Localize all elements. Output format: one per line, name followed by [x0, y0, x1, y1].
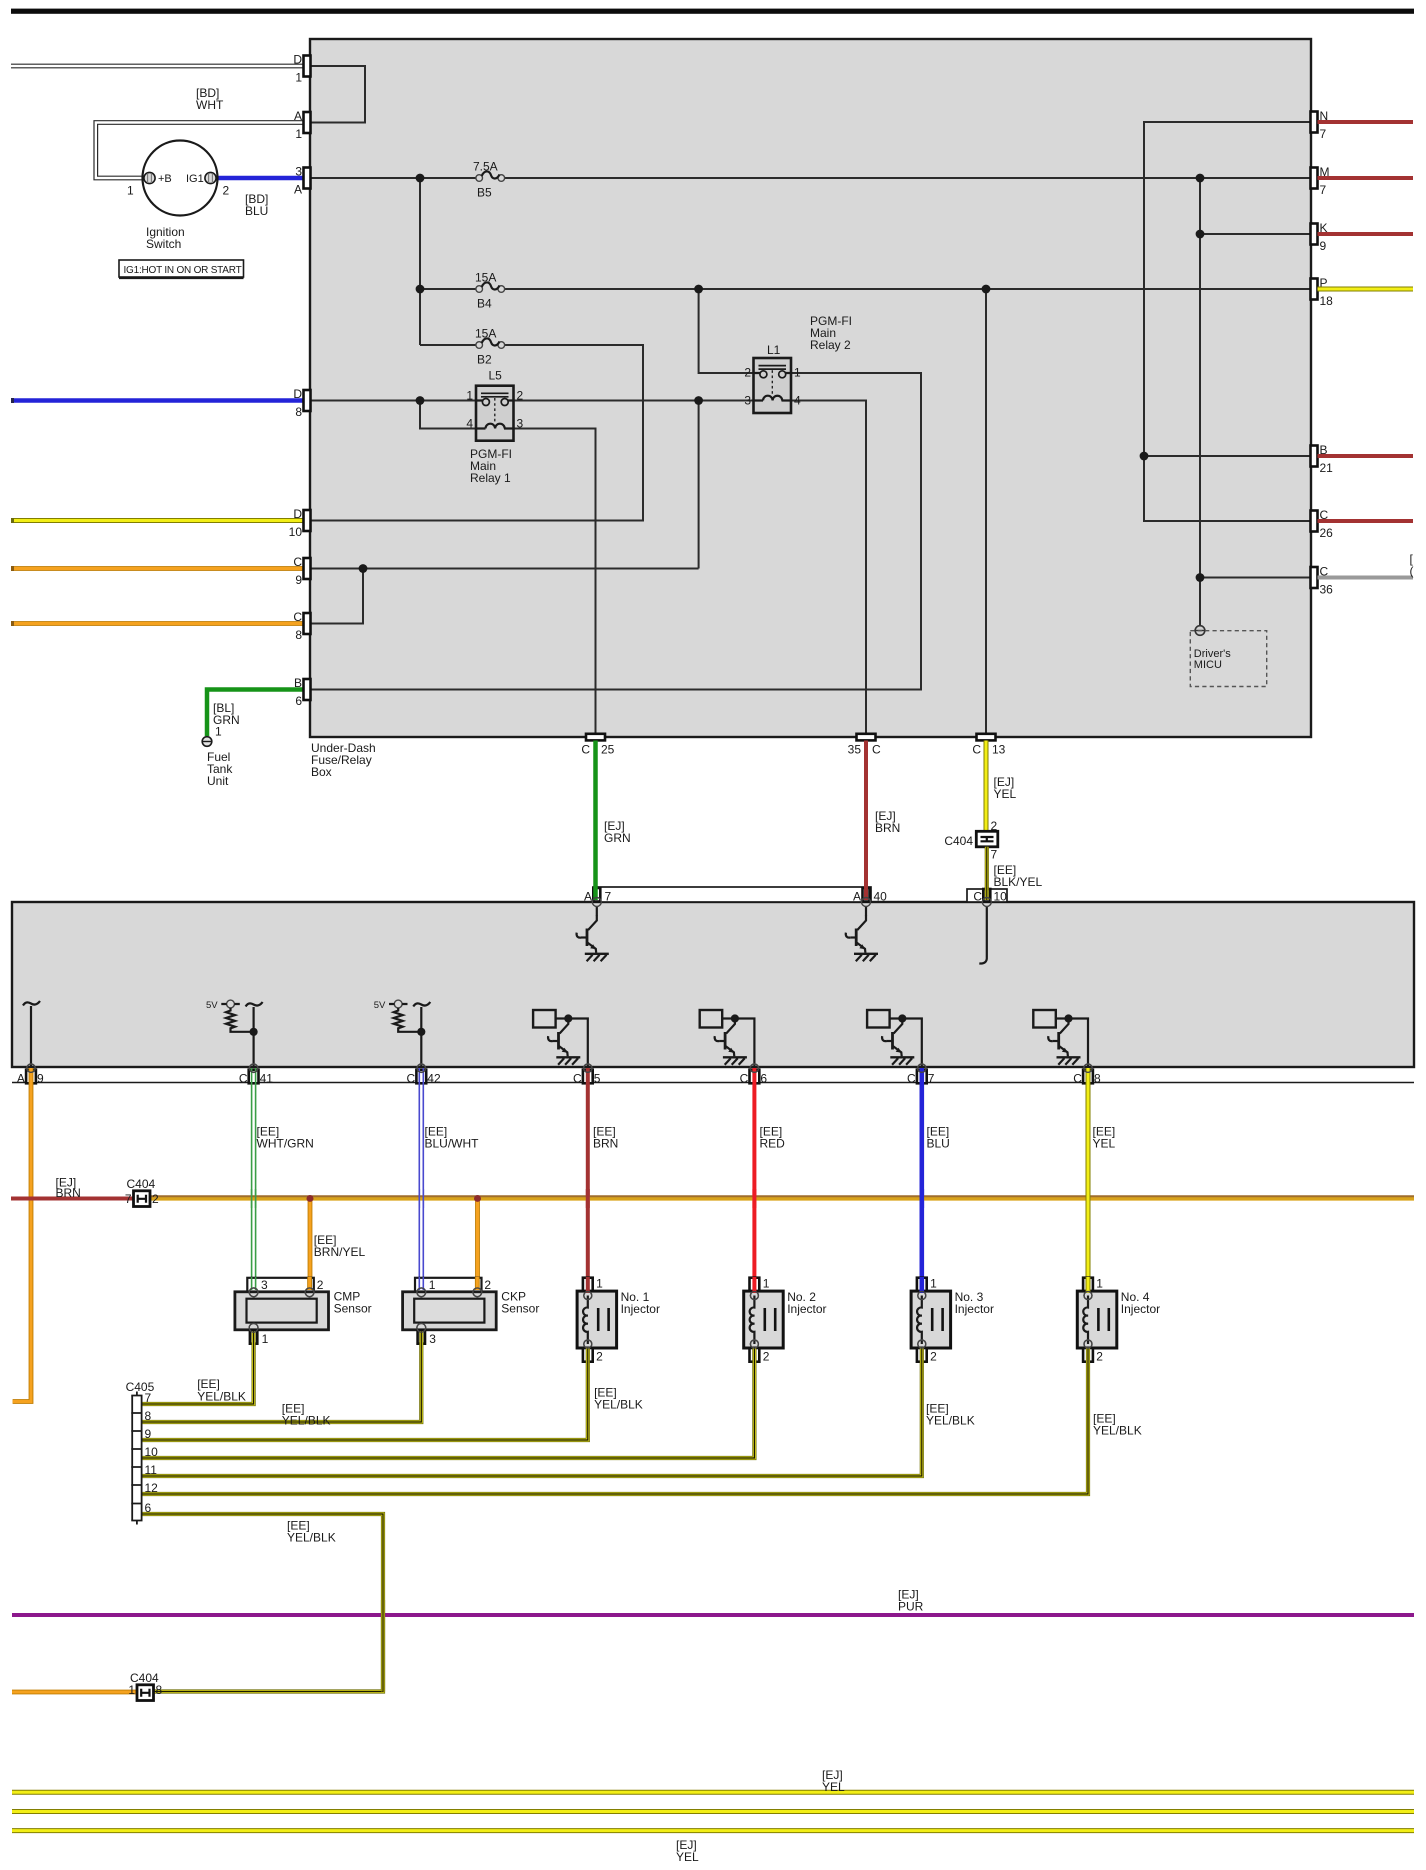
svg-text:36: 36: [1320, 583, 1334, 597]
svg-text:8: 8: [156, 1683, 163, 1697]
wire [EJ] YEL bottom 1: [12, 1790, 1414, 1795]
band edge connector C41: [249, 1070, 259, 1084]
lower gray band (ECM/PCM): [12, 902, 1414, 1067]
svg-text:42: 42: [427, 1071, 441, 1085]
svg-text:10: 10: [289, 525, 303, 539]
wire battery bus vertical x=420: [419, 178, 421, 345]
svg-text:7: 7: [991, 848, 998, 862]
wire [EJ] BRN horizontal row: [11, 1197, 134, 1201]
wire ORN horizontal row to right edge: [150, 1195, 1414, 1200]
injector driver for C6: [700, 1010, 755, 1066]
svg-text:C404: C404: [127, 1177, 156, 1191]
wire [EE] BRN/YEL to CMP pin2: [308, 1199, 313, 1289]
wire [EE] WHT/GRN C41 to CMP pin3: [252, 1068, 256, 1288]
wire BLU/WHT through CKP pin1 strip: [419, 1277, 423, 1290]
fuel tank unit terminal: [202, 737, 212, 747]
wire B2 output to D10: [310, 345, 643, 521]
svg-text:YEL/BLK: YEL/BLK: [282, 1414, 331, 1428]
svg-text:Switch: Switch: [146, 237, 181, 251]
node dot on orange row at CKP branch: [474, 1195, 481, 1202]
svg-text:2: 2: [763, 1350, 770, 1364]
svg-text:1: 1: [763, 1277, 770, 1291]
svg-text:B: B: [294, 676, 302, 690]
band edge connector C7: [917, 1070, 927, 1084]
svg-text:2: 2: [484, 1278, 491, 1292]
wire [EJ] PUR horizontal: [12, 1613, 1414, 1617]
wire B5 fuse output to M7: [505, 177, 1312, 179]
svg-text:C: C: [407, 1071, 416, 1085]
pin 35C: [857, 734, 876, 741]
svg-text:C: C: [239, 1071, 248, 1085]
svg-text:Injector: Injector: [1121, 1302, 1160, 1316]
svg-text:4: 4: [794, 394, 801, 408]
svg-text:B4: B4: [477, 297, 492, 311]
svg-text:15A: 15A: [475, 271, 496, 285]
svg-text:2: 2: [517, 389, 524, 403]
svg-text:6: 6: [295, 694, 302, 708]
wire D8 row into relay L5 pin1: [310, 400, 476, 402]
svg-text:15A: 15A: [475, 327, 496, 341]
svg-text:7: 7: [125, 1192, 132, 1206]
svg-text:2: 2: [317, 1278, 324, 1292]
pin C8: [304, 613, 311, 634]
svg-text:D: D: [293, 387, 302, 401]
wire [EJ] YEL bottom 3: [12, 1828, 1414, 1833]
svg-text:(: (: [1410, 564, 1414, 578]
svg-text:GRN: GRN: [604, 831, 631, 845]
svg-text:26: 26: [1320, 526, 1334, 540]
5V pull-up for C42: [374, 1000, 431, 1066]
svg-text:C: C: [973, 890, 982, 904]
pin C36: [1311, 567, 1318, 588]
transistor ground A7: [596, 907, 598, 916]
svg-text:3: 3: [429, 1332, 436, 1346]
svg-text:10: 10: [145, 1445, 159, 1459]
wire B4 output row to P18: [505, 288, 1312, 290]
svg-text:3: 3: [517, 417, 524, 431]
svg-text:YEL/BLK: YEL/BLK: [926, 1414, 975, 1428]
svg-text:9: 9: [295, 573, 302, 587]
svg-text:1: 1: [930, 1277, 937, 1291]
svg-text:Relay 2: Relay 2: [810, 338, 851, 352]
wire [BD] WHT A1 loop to ignition +B: [94, 121, 304, 180]
wire N7 to C26 vertical: [1144, 122, 1311, 521]
redraw YEL/BLK crossing over purple: [381, 1600, 385, 1692]
svg-text:40: 40: [874, 890, 888, 904]
svg-text:A: A: [17, 1071, 25, 1085]
top border bar: [11, 9, 1414, 14]
svg-text:1: 1: [127, 184, 134, 198]
wire C9 branch up to D8 row: [698, 401, 700, 569]
svg-text:Relay 1: Relay 1: [470, 471, 511, 485]
svg-text:7: 7: [1320, 127, 1327, 141]
svg-text:L1: L1: [767, 343, 781, 357]
svg-text:YEL: YEL: [676, 1850, 699, 1864]
svg-text:C: C: [740, 1071, 749, 1085]
wire crossings over orange row (verticals on top): [252, 1189, 1088, 1208]
transistor ground A40: [865, 907, 867, 916]
wire C9 row: [310, 568, 699, 570]
svg-text:D: D: [293, 53, 302, 67]
svg-text:8: 8: [295, 405, 302, 419]
wire M7 branch vertical to MICU ground: [1199, 178, 1201, 626]
svg-text:13: 13: [992, 743, 1006, 757]
wire [EE] BLU/WHT C42 to CKP pin1: [419, 1068, 423, 1288]
wire C36 row: [1200, 577, 1311, 579]
wire BRN/YEL through CKP pin2 strip: [475, 1277, 480, 1290]
pin A3: [304, 168, 311, 189]
wire [EE] BLK/YEL C404 to C10: [985, 847, 989, 889]
svg-text:D: D: [293, 507, 302, 521]
connector C405 comb: [126, 1380, 159, 1525]
wire YEL through injector4 pin1: [1086, 1277, 1091, 1293]
band edge circles over wires: [27, 1064, 1092, 1072]
pin N7: [1311, 112, 1318, 133]
wire L1 pin1 to B6 row: [310, 373, 921, 690]
connector C404 (horizontal H symbol): [125, 1177, 159, 1207]
svg-text:YEL: YEL: [994, 787, 1017, 801]
svg-text:YEL/BLK: YEL/BLK: [197, 1390, 246, 1404]
pin A7: [593, 888, 600, 902]
wire [EE] YEL/BLK injector1 to C405 pin9: [142, 1347, 588, 1440]
svg-text:1: 1: [215, 725, 222, 739]
band edge connector C6: [750, 1070, 760, 1084]
svg-text:Sensor: Sensor: [334, 1302, 372, 1316]
wire B21 maroon: [1318, 454, 1414, 458]
injector driver for C5: [533, 1010, 588, 1066]
svg-text:2: 2: [744, 366, 751, 380]
svg-text:IG1:HOT IN ON OR START: IG1:HOT IN ON OR START: [124, 265, 242, 276]
svg-text:C: C: [581, 743, 590, 757]
wire [EE] YEL C8 to injector4: [1086, 1068, 1091, 1280]
svg-text:18: 18: [1320, 294, 1334, 308]
svg-text:2: 2: [930, 1350, 937, 1364]
svg-text:8: 8: [145, 1409, 152, 1423]
band edge connector C5: [583, 1070, 593, 1084]
svg-text:Box: Box: [311, 765, 332, 779]
wire [EJ] BLU to D8: [12, 398, 304, 403]
wire WHT/GRN through CMP pin3 strip: [252, 1277, 256, 1290]
svg-text:1: 1: [1096, 1277, 1103, 1291]
svg-text:1: 1: [429, 1278, 436, 1292]
fuse B5 7.5A: [473, 160, 505, 200]
connector C404 (vertical): [944, 819, 997, 862]
svg-text:A: A: [853, 890, 861, 904]
svg-text:WHT/GRN: WHT/GRN: [257, 1137, 314, 1151]
injector driver for C8: [1033, 1010, 1088, 1066]
svg-text:PUR: PUR: [898, 1600, 924, 1614]
wire [BD] BLU ignition IG1 to A3: [216, 176, 304, 181]
wire [EE] YEL/BLK injector3 to C405 pin11: [142, 1347, 922, 1476]
svg-text:7: 7: [145, 1391, 152, 1405]
pin D1: [304, 56, 311, 77]
svg-text:9: 9: [37, 1071, 44, 1085]
MICU ground circle: [1195, 626, 1205, 636]
svg-text:BRN: BRN: [593, 1137, 618, 1151]
svg-text:IG1: IG1: [186, 173, 204, 185]
wire [BD] WHT to D1: [11, 64, 304, 68]
svg-text:1: 1: [295, 71, 302, 85]
wire [EE] YEL/BLK CKP pin3 to C405 pin8: [142, 1331, 421, 1422]
svg-text:Injector: Injector: [955, 1302, 994, 1316]
wire BRN through injector1 pin1: [586, 1277, 590, 1293]
svg-text:5: 5: [594, 1071, 601, 1085]
pin B6: [304, 679, 311, 700]
svg-text:1: 1: [128, 1683, 135, 1697]
ignition switch: [127, 141, 230, 252]
fuse B4 15A: [475, 271, 505, 311]
sensor pin circles over wires: [249, 1288, 1092, 1348]
svg-text:2: 2: [152, 1192, 159, 1206]
svg-text:6: 6: [145, 1501, 152, 1515]
svg-text:L5: L5: [489, 369, 503, 383]
wire C10 stub with hook: [979, 907, 987, 964]
svg-text:5V: 5V: [374, 1000, 386, 1011]
fuse B2 15A: [475, 327, 505, 367]
wire [EE] BRN/YEL to CKP pin2: [475, 1199, 480, 1289]
svg-text:Injector: Injector: [787, 1302, 826, 1316]
wire B4 branch down to L1 contact pin2: [699, 289, 754, 373]
pin C25: [586, 734, 605, 741]
svg-text:7: 7: [1320, 183, 1327, 197]
svg-text:C: C: [293, 555, 302, 569]
svg-text:B2: B2: [477, 353, 492, 367]
wire [EJ] YEL to D10: [12, 518, 304, 523]
pin M7: [1311, 168, 1318, 189]
svg-text:41: 41: [260, 1071, 274, 1085]
band edge connector C8: [1083, 1070, 1093, 1084]
svg-text:BLU: BLU: [245, 204, 268, 218]
svg-text:BRN/YEL: BRN/YEL: [314, 1245, 366, 1259]
wire [EE] YEL/BLK C405 pin6 to C404: [142, 1514, 383, 1692]
svg-text:Unit: Unit: [207, 774, 229, 788]
wire C26 maroon: [1318, 519, 1414, 523]
svg-text:BLK/YEL: BLK/YEL: [994, 875, 1043, 889]
svg-text:BLU: BLU: [927, 1137, 950, 1151]
node dot on orange row at CMP branch: [307, 1195, 314, 1202]
wire A9 stub with hook: [30, 1006, 32, 1066]
pin C10: [983, 889, 990, 902]
wire ORN to C9: [12, 566, 304, 571]
svg-text:BRN: BRN: [56, 1186, 81, 1200]
svg-text:C: C: [972, 743, 981, 757]
svg-text:6: 6: [760, 1071, 767, 1085]
wire C36 gray: [1318, 576, 1414, 580]
svg-text:11: 11: [145, 1463, 158, 1477]
wire M7 maroon: [1318, 176, 1414, 180]
wire P18 yellow: [1318, 287, 1414, 292]
svg-text:C: C: [872, 743, 881, 757]
svg-text:7.5A: 7.5A: [473, 160, 498, 174]
pin P18: [1311, 279, 1318, 300]
svg-text:Injector: Injector: [621, 1302, 660, 1316]
svg-text:YEL: YEL: [1093, 1137, 1116, 1151]
pin C13: [977, 734, 996, 741]
pin C26: [1311, 511, 1318, 532]
wire B4 branch down to C13: [985, 289, 987, 734]
svg-text:9: 9: [1320, 239, 1327, 253]
svg-text:MICU: MICU: [1194, 659, 1222, 671]
svg-text:2: 2: [1096, 1350, 1103, 1364]
pin D10: [304, 510, 311, 531]
svg-text:7: 7: [928, 1071, 935, 1085]
band edge connector C42: [416, 1070, 426, 1084]
wire B2 feed: [420, 344, 476, 346]
svg-text:C404: C404: [944, 834, 973, 848]
svg-text:RED: RED: [760, 1137, 786, 1151]
svg-text:A: A: [584, 890, 592, 904]
svg-text:BLU/WHT: BLU/WHT: [425, 1137, 480, 1151]
Driver's MICU dashed box: [1190, 631, 1266, 687]
svg-text:3: 3: [261, 1278, 268, 1292]
wire end caps: [11, 398, 14, 403]
ECM connector strip C10: [967, 889, 1007, 902]
svg-text:21: 21: [1320, 461, 1334, 475]
wire [EJ] YEL C13 to C404: [984, 741, 989, 833]
wire [EE] YEL/BLK injector4 to C405 pin12: [142, 1347, 1088, 1494]
svg-text:1: 1: [466, 389, 473, 403]
IG1 note box: [119, 260, 244, 277]
svg-text:WHT: WHT: [196, 98, 224, 112]
wire [EJ] GRN C25 to A7: [593, 741, 598, 889]
wire B4 row feed: [420, 288, 476, 290]
pin A40: [863, 888, 870, 902]
svg-text:Sensor: Sensor: [501, 1302, 539, 1316]
wire [EJ] YEL bottom 2: [12, 1809, 1414, 1814]
injector driver for C7: [867, 1010, 922, 1066]
svg-text:1: 1: [794, 366, 801, 380]
wire [EE] RED C6 to injector2: [752, 1068, 756, 1280]
wire RED through injector2 pin1: [752, 1277, 756, 1293]
wire D1-A1 loop: [310, 66, 365, 123]
wire ORN to C8: [12, 621, 304, 626]
svg-text:12: 12: [145, 1481, 159, 1495]
svg-text:3: 3: [744, 394, 751, 408]
svg-text:35: 35: [848, 743, 862, 757]
node junction dots: [416, 174, 425, 183]
wire BRN/YEL through CMP pin2 strip: [307, 1277, 312, 1290]
svg-text:2: 2: [596, 1350, 603, 1364]
wire [EE] BRN C5 to injector1: [586, 1068, 590, 1280]
svg-text:YEL: YEL: [822, 1780, 845, 1794]
svg-text:1: 1: [262, 1332, 269, 1346]
left edge connector pins on fuse box: [289, 53, 311, 709]
svg-text:C: C: [573, 1071, 582, 1085]
wire [BL] GRN fuel tank unit to B6: [207, 690, 304, 737]
svg-text:+B: +B: [158, 173, 172, 185]
wire ORN A9 down-left stub: [13, 1068, 31, 1402]
relay L5 PGM-FI Main Relay 1: [466, 369, 523, 486]
wires through A7/A40/C10 strip: [593, 886, 598, 900]
svg-text:A: A: [294, 109, 302, 123]
svg-text:8: 8: [1094, 1071, 1101, 1085]
wire N7 maroon: [1318, 120, 1414, 124]
svg-text:YEL/BLK: YEL/BLK: [1093, 1424, 1142, 1438]
svg-text:1: 1: [295, 127, 302, 141]
svg-text:9: 9: [145, 1427, 152, 1441]
connector C404 (horizontal H symbol, bottom): [128, 1671, 162, 1701]
svg-text:4: 4: [466, 417, 473, 431]
svg-text:C: C: [1073, 1071, 1082, 1085]
5V pull-up for C41: [206, 1000, 263, 1066]
svg-text:2: 2: [223, 184, 230, 198]
svg-text:B5: B5: [477, 186, 492, 200]
ECM connector strip A7-A40: [593, 887, 871, 902]
wire L5 pin3 to C25: [514, 429, 596, 735]
pin B21: [1311, 446, 1318, 467]
pin D8: [304, 390, 311, 411]
wire L1 pin4 to 35C: [792, 401, 867, 735]
svg-text:5V: 5V: [206, 1000, 218, 1011]
wire K9 maroon: [1318, 232, 1414, 236]
connector strip line under lower band: [12, 1082, 1414, 1084]
wire [EE] BLU C7 to injector3: [919, 1068, 924, 1280]
wire B21 row: [1144, 455, 1311, 457]
Under-Dash Fuse/Relay Box (gray): [310, 39, 1311, 737]
pin K9: [1311, 224, 1318, 245]
wire IG1 row y=178 to fuse B5 and M7: [310, 177, 476, 179]
wire [EJ] BRN 35C to A40: [864, 741, 868, 889]
pin C9: [304, 558, 311, 579]
band edge connector A9: [26, 1070, 36, 1084]
relay L1 PGM-FI Main Relay 2: [744, 314, 852, 413]
svg-text:8: 8: [295, 628, 302, 642]
wire [EE] YEL/BLK injector2 to C405 pin10: [142, 1347, 754, 1458]
wire ORN stub to C404: [12, 1690, 137, 1695]
svg-text:C: C: [293, 610, 302, 624]
svg-text:YEL/BLK: YEL/BLK: [287, 1531, 336, 1545]
svg-text:BRN: BRN: [875, 821, 900, 835]
wire L5 pin2 to L1 coil pin3: [514, 400, 754, 402]
wire D8 branch to L5 coil pin4: [420, 401, 476, 429]
svg-text:C: C: [907, 1071, 916, 1085]
svg-text:3: 3: [295, 165, 302, 179]
svg-text:2: 2: [991, 819, 998, 833]
svg-text:A: A: [294, 183, 302, 197]
wire K9 row: [1200, 233, 1311, 235]
svg-text:YEL/BLK: YEL/BLK: [594, 1398, 643, 1412]
wire BLU through injector3 pin1: [919, 1277, 924, 1293]
wire C8 riser to C9 row: [310, 569, 363, 624]
svg-text:7: 7: [605, 890, 612, 904]
wire [EE] YEL/BLK CMP pin1 to C405 pin7: [142, 1331, 254, 1404]
pin A1: [304, 112, 311, 133]
svg-text:1: 1: [596, 1277, 603, 1291]
svg-text:10: 10: [994, 890, 1008, 904]
svg-text:25: 25: [601, 743, 615, 757]
